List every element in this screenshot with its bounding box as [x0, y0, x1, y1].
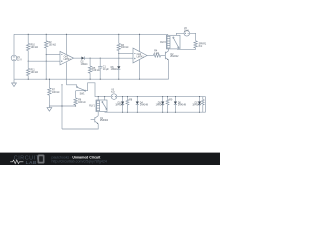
relay RLY1: [89, 100, 107, 112]
wire OA1 inverting input: [46, 54, 60, 56]
riser x62 junction: [61, 84, 62, 85]
svg-text:100 kΩ: 100 kΩ: [121, 47, 129, 49]
resistor R5: [88, 58, 100, 79]
node junction (127.4,96.6): [127, 96, 128, 97]
node junction (66.4,34.3): [66, 34, 67, 35]
svg-text:SW1: SW1: [80, 94, 86, 96]
OA2 V+ pin: [139, 34, 141, 51]
wire OA1 output: [74, 57, 82, 59]
node junction (46.2,79.2): [46, 79, 47, 80]
svg-text:LAB: LAB: [26, 160, 37, 165]
svg-text:100 kΩ: 100 kΩ: [31, 47, 39, 49]
svg-text:1 kΩ: 1 kΩ: [154, 53, 159, 55]
node junction (118.8,53.5): [118, 53, 119, 54]
wire right end: [205, 97, 207, 113]
resistor SPKR (speaker): [194, 41, 207, 48]
svg-text:100 kΩ: 100 kΩ: [31, 72, 39, 74]
wire ground rail: [14, 78, 169, 80]
svg-text:2N3904: 2N3904: [100, 120, 109, 122]
diode D5: [156, 97, 165, 113]
diode D3: [115, 97, 124, 113]
resistor R12: [201, 97, 204, 113]
OA1 V+ pin: [65, 34, 67, 54]
svg-text:5 V: 5 V: [111, 92, 115, 94]
diode D7: [192, 97, 201, 113]
node junction (175.4,96.6): [175, 96, 176, 97]
svg-text:1N914: 1N914: [111, 69, 118, 71]
wire output node: [84, 57, 133, 59]
node junction (199.5,96.6): [199, 96, 200, 97]
transistor Q2: [165, 51, 179, 60]
svg-text:1N4148: 1N4148: [115, 105, 124, 107]
resistor R10: [27, 34, 39, 61]
wire OA1 non-inverting input: [28, 60, 60, 62]
node junction (28.2,79.2): [28, 79, 29, 80]
node junction (46.2,54.6): [46, 54, 47, 55]
svg-text:1N4148: 1N4148: [178, 105, 187, 107]
op-amp OA2: [133, 48, 147, 63]
wire LED strip bottom rail: [105, 111, 206, 113]
wire V2 to speaker: [190, 33, 196, 41]
wire Q2 collector to relay coil: [168, 49, 170, 51]
wire ground rail to Q2 emitter (right end corner): [140, 78, 169, 80]
node junction (167.5,112.2): [167, 112, 168, 113]
node junction (90.1,58.15): [90, 58, 91, 59]
node R10/R11 junction: [28, 61, 29, 62]
node junction (162.7,96.6): [162, 96, 163, 97]
svg-text:1N4148: 1N4148: [140, 105, 149, 107]
diode D6 (to ground rail): [111, 66, 121, 79]
node junction (122.6,112.2): [122, 112, 123, 113]
capacitor C1: [98, 58, 109, 79]
svg-text:12 V: 12 V: [184, 31, 189, 33]
node junction (127.4,112.2): [127, 112, 128, 113]
node junction (137.3,96.6): [137, 96, 138, 97]
svg-text:RLY1: RLY1: [89, 106, 95, 108]
node junction (100.2,58.15): [100, 58, 101, 59]
node junction (75.6,106): [75, 105, 76, 106]
wire top rail: [14, 33, 168, 35]
voltage source V3: [111, 90, 117, 100]
svg-text:http://circuitlab.com/c/5qky78: http://circuitlab.com/c/5qky78fg424: [52, 160, 107, 164]
voltage source V1: [11, 34, 22, 79]
resistor R9: [166, 97, 173, 113]
node junction (122.6,96.6): [122, 96, 123, 97]
wire relay switch to V2: [176, 33, 184, 35]
wire R6 top to SW1 right: [76, 90, 86, 92]
wire SW1 to relay coil / V3: [86, 83, 98, 100]
wire RLY1 coil bottom to Q1 collector: [97, 112, 99, 116]
node junction (98.2,96.6): [98, 96, 99, 97]
svg-text:1N914: 1N914: [81, 64, 88, 66]
wire RLY1 switch to LED bottom rail: [104, 111, 106, 114]
op-amp OA1: [60, 51, 74, 65]
wire OA2 inverting input: [119, 53, 133, 55]
node junction (199.5,112.2): [199, 112, 200, 113]
wire V3 minus to relay node: [104, 97, 106, 100]
node junction (118.8,79.2): [118, 79, 119, 80]
diode D6b: [174, 97, 187, 113]
node junction (139.6,79.2): [139, 79, 140, 80]
node junction (62,106): [61, 105, 62, 106]
wire R7 node to R6 bottom and Q1 base: [49, 105, 75, 107]
node junction (100.2,79.2): [100, 79, 101, 80]
transistor Q1: [95, 116, 109, 124]
wire Q1 emitter to bottom rail: [62, 124, 98, 129]
resistor R6: [74, 91, 86, 106]
ground (under R7): [47, 106, 52, 111]
svg-text:100 kΩ: 100 kΩ: [52, 92, 60, 94]
resistor R11: [27, 61, 39, 79]
relay RLY2: [160, 34, 180, 49]
svg-text:LM741: LM741: [137, 56, 145, 58]
switch SW1: [76, 86, 85, 95]
node junction (137.3,112.2): [137, 112, 138, 113]
svg-text:100 kΩ: 100 kΩ: [49, 44, 57, 46]
svg-text:1N4148: 1N4148: [156, 105, 165, 107]
node junction (46.2,61.2): [46, 61, 47, 62]
node junction (118.8,58.15): [118, 58, 119, 59]
node junction (49.4,79.2): [49, 79, 50, 80]
resistor R8: [126, 97, 133, 113]
svg-text:12 V: 12 V: [17, 59, 22, 61]
svg-text:8 Ω: 8 Ω: [199, 46, 203, 48]
node junction (162.7,112.2): [162, 112, 163, 113]
svg-text:1N4148: 1N4148: [192, 105, 201, 107]
node junction (118.8,34.3): [118, 34, 119, 35]
svg-text:100 kΩ: 100 kΩ: [78, 102, 86, 104]
wire Q1 base: [91, 119, 95, 121]
OA1 V- pin: [65, 62, 67, 85]
footer bar: [0, 153, 220, 165]
OA2 V- pin: [139, 60, 141, 80]
node junction (104.7,96.6): [104, 96, 105, 97]
resistor R4: [153, 51, 160, 58]
svg-text:2N2222: 2N2222: [170, 56, 179, 58]
diode D2: [81, 57, 88, 66]
diode D4: [136, 97, 149, 113]
resistor R2: [45, 34, 57, 79]
node junction (46.2,34.3): [46, 34, 47, 35]
svg-text:RLY2: RLY2: [160, 42, 166, 44]
svg-text:100 kΩ: 100 kΩ: [92, 70, 100, 72]
node junction (28.2,34.3): [28, 34, 29, 35]
wire speaker back to relay: [177, 48, 195, 49]
svg-text:LM741: LM741: [64, 59, 72, 61]
node junction (175.4,112.2): [175, 112, 176, 113]
wire to Q2 base: [161, 55, 166, 57]
svg-text:10 µF: 10 µF: [103, 69, 110, 71]
voltage source V2 (motor circle): [184, 28, 190, 36]
node junction (167.5,96.6): [167, 96, 168, 97]
wire LED strip top rail: [117, 96, 206, 98]
wire Q2 emitter down/left: [168, 60, 170, 79]
resistor R7: [48, 79, 60, 106]
wire OA1 V- to SW1: [66, 85, 76, 87]
wire riser x62: [61, 85, 63, 129]
resistor R3: [117, 34, 129, 66]
ground (under V1): [12, 79, 17, 86]
wire OA2 output: [147, 55, 153, 57]
node junction (139.6,34.3): [139, 34, 140, 35]
node junction (90.1,79.2): [90, 79, 91, 80]
